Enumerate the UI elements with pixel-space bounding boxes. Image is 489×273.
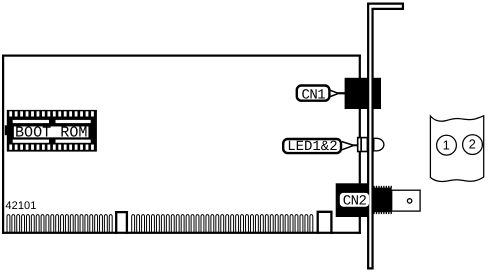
LED pointer	[342, 142, 358, 150]
LED holder	[358, 138, 368, 152]
edge connector fingers group 2	[132, 215, 135, 233]
edge connector fingers group 1	[7, 215, 10, 233]
board outline bottom edge	[2, 232, 361, 234]
ROM chip U1 (BOOT ROM)	[5, 110, 97, 152]
LED hole 1	[437, 135, 457, 155]
CN2 center pin	[407, 199, 411, 203]
board edge step	[318, 212, 332, 234]
svg-text:CN2: CN2	[343, 193, 367, 209]
LED dome	[374, 138, 384, 151]
label LED1&2	[283, 139, 341, 155]
CN1 pointer	[330, 90, 345, 96]
CN2 BNC tip	[392, 190, 420, 211]
board outline right edge	[359, 55, 361, 234]
svg-text:2: 2	[469, 137, 476, 152]
CN2 threads	[372, 188, 392, 213]
connector CN2 body	[336, 183, 373, 217]
LED hole 2	[463, 135, 483, 155]
LED panel cutout strip	[430, 116, 483, 182]
svg-text:CN1: CN1	[301, 87, 325, 103]
svg-text:1: 1	[443, 137, 450, 152]
board right edge line through LED holder	[360, 138, 362, 150]
connector CN1	[345, 78, 381, 109]
mounting bracket	[368, 4, 403, 269]
svg-text:42101: 42101	[5, 200, 36, 212]
board outline top edge	[2, 55, 361, 57]
board outline left edge	[2, 55, 4, 234]
label CN1	[297, 86, 330, 104]
label CN2	[340, 193, 369, 210]
svg-text:BOOT ROM: BOOT ROM	[15, 123, 87, 141]
svg-text:LED1&2: LED1&2	[287, 139, 337, 155]
key notch	[116, 212, 127, 234]
